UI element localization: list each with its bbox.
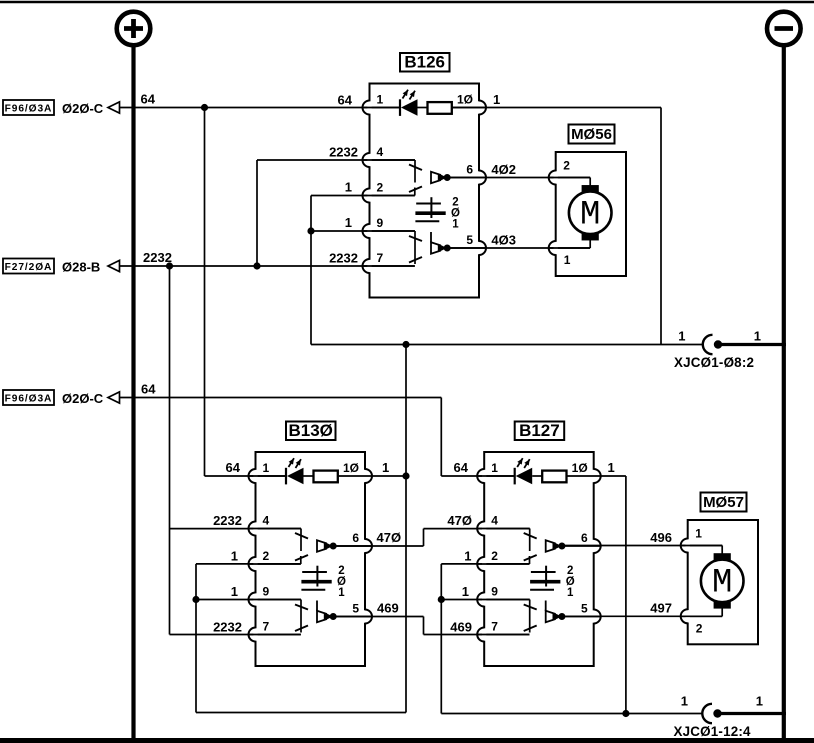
connector XJCØ1-Ø8:2 contact dot bbox=[714, 340, 722, 348]
motor MØ57 brush bottom bbox=[714, 601, 731, 608]
svg-text:1: 1 bbox=[678, 329, 685, 344]
wire B126 pin 9 bbox=[311, 230, 415, 232]
relay B13Ø switch S2 blade bbox=[295, 605, 308, 610]
relay B13Ø output arrow to pin 6 bbox=[317, 540, 326, 551]
svg-text:469: 469 bbox=[450, 620, 472, 635]
svg-text:F96/Ø3A: F96/Ø3A bbox=[5, 393, 53, 404]
svg-text:1: 1 bbox=[462, 584, 469, 599]
relay B126 LED D1 wire pin1 bbox=[363, 107, 401, 109]
motor MØ57 wire top pin bbox=[681, 545, 723, 547]
svg-text:2232: 2232 bbox=[329, 145, 358, 160]
svg-text:Ø2Ø-C: Ø2Ø-C bbox=[62, 101, 104, 116]
svg-text:1: 1 bbox=[493, 92, 500, 107]
svg-text:2232: 2232 bbox=[213, 513, 242, 528]
svg-text:1: 1 bbox=[345, 215, 352, 230]
wire 64 row 1 to B126 pin 1 bbox=[120, 107, 401, 109]
fuse reference box F96/03A row 1 bbox=[3, 100, 54, 115]
relay B13Ø capacitor C1 bbox=[316, 566, 318, 587]
relay B127 LED D1 light arrows bbox=[517, 458, 523, 467]
svg-text:7: 7 bbox=[377, 251, 384, 265]
svg-text:4: 4 bbox=[377, 145, 384, 159]
relay B126 outline box bbox=[370, 84, 480, 298]
svg-text:4Ø3: 4Ø3 bbox=[491, 233, 516, 248]
relay B13Ø switch S2 blade 2 bbox=[295, 626, 308, 632]
motor MØ57 label box MØ57 bbox=[701, 493, 747, 512]
svg-text:1: 1 bbox=[338, 587, 345, 599]
relay B126 LED D1 light arrows bbox=[403, 90, 409, 99]
svg-text:MØ57: MØ57 bbox=[703, 494, 744, 511]
motor MØ57 outline box bbox=[688, 520, 758, 644]
node junction B127 pin10 ground bbox=[622, 710, 629, 717]
relay B126 switch S1 pin2 stub bbox=[363, 195, 415, 197]
relay B127 switch S2 pin9 post bbox=[477, 599, 530, 601]
svg-text:64: 64 bbox=[141, 382, 156, 397]
motor MØ56 wire top pin bbox=[549, 177, 591, 179]
svg-text:Ø28-B: Ø28-B bbox=[62, 260, 100, 275]
relay B13Ø switch S1 pin2 stub bbox=[249, 563, 301, 565]
node junction ground return bbox=[402, 341, 409, 348]
wire B130 pin 9 bbox=[196, 599, 301, 601]
ground return wire to XJC01-08:2 bbox=[311, 344, 704, 346]
svg-text:5: 5 bbox=[466, 233, 473, 247]
relay B127 outline box bbox=[484, 452, 594, 666]
relay B127 switch S2 blade bbox=[524, 605, 537, 610]
svg-text:9: 9 bbox=[377, 216, 384, 230]
motor MØ57 wire bottom pin bbox=[721, 607, 723, 616]
motor MØ56 pin notches bbox=[554, 171, 558, 183]
thick wire XJC01-12:4 to negative bus bbox=[718, 712, 787, 715]
relay B13Ø output arrow to pin 5 bbox=[316, 601, 318, 612]
wire 2232 vertical to B130 pins 4 and 7 bbox=[169, 266, 171, 635]
relay B13Ø LED D1 light arrows bbox=[289, 458, 295, 467]
relay B127 pin notches bbox=[482, 470, 486, 482]
svg-text:5: 5 bbox=[352, 602, 359, 616]
relay B127 LED D1 wire pin1 bbox=[477, 475, 515, 477]
svg-text:9: 9 bbox=[263, 585, 270, 599]
relay B127 LED D1 cathode bar bbox=[514, 468, 516, 485]
relay B126 output arrow to pin 5 bbox=[430, 232, 432, 243]
svg-text:1: 1 bbox=[231, 549, 238, 564]
wire 64 row 3 to B127 pin 1 bbox=[120, 397, 442, 399]
motor MØ56 outline box bbox=[556, 152, 626, 276]
off-page arrow row 2 bbox=[108, 260, 120, 271]
wire 64 vertical to B130 pin 1 bbox=[204, 108, 206, 477]
svg-text:1: 1 bbox=[452, 219, 459, 231]
svg-text:64: 64 bbox=[338, 93, 353, 108]
node junction row2 to B130 pins 4 7 bbox=[166, 262, 173, 269]
svg-text:6: 6 bbox=[581, 531, 588, 545]
svg-text:6: 6 bbox=[466, 163, 473, 177]
motor MØ57 armature circle M bbox=[701, 560, 744, 603]
svg-text:1Ø: 1Ø bbox=[457, 93, 473, 107]
wire B126 pin 10 to ground node bbox=[452, 107, 661, 109]
motor MØ56 label box MØ56 bbox=[569, 125, 615, 144]
svg-text:B13Ø: B13Ø bbox=[288, 421, 332, 440]
svg-text:1: 1 bbox=[345, 180, 352, 195]
svg-text:B126: B126 bbox=[404, 53, 445, 72]
svg-text:1: 1 bbox=[231, 584, 238, 599]
motor MØ56 brush bottom bbox=[582, 233, 599, 240]
wire B126 pin 4 from node 2232 bbox=[256, 160, 258, 266]
svg-text:2232: 2232 bbox=[143, 250, 172, 265]
relay B13Ø resistor R1 bbox=[304, 475, 314, 477]
relay B126 capacitor C1 bbox=[430, 197, 432, 218]
node junction B130 pin 10 row bbox=[402, 472, 409, 479]
relay B13Ø LED D1 triangle bbox=[287, 468, 304, 484]
svg-text:2: 2 bbox=[696, 621, 703, 635]
svg-text:2: 2 bbox=[491, 549, 498, 563]
svg-text:2232: 2232 bbox=[213, 620, 242, 635]
node junction row2 to B126 pin 4 bbox=[253, 262, 260, 269]
svg-text:F96/Ø3A: F96/Ø3A bbox=[5, 103, 53, 114]
top border line bbox=[0, 1, 814, 3]
relay B127 switch S1 blade 2 bbox=[524, 555, 537, 561]
svg-text:F27/2ØA: F27/2ØA bbox=[5, 262, 53, 273]
relay B127 switch S2 blade 2 bbox=[524, 626, 537, 632]
svg-text:2: 2 bbox=[263, 549, 270, 563]
wire 402 B126 pin 6 to M056 pin 2 bbox=[448, 177, 591, 179]
relay B127 switch S1 blade bbox=[524, 533, 537, 539]
svg-text:4: 4 bbox=[263, 514, 270, 528]
relay B126 switch S1 blade bbox=[409, 165, 422, 171]
relay B126 resistor R1 bbox=[418, 107, 428, 109]
wire B127 pin 2 bbox=[441, 563, 529, 565]
fuse reference box F96/03A row 3 bbox=[3, 390, 54, 405]
svg-text:4Ø2: 4Ø2 bbox=[491, 162, 516, 177]
svg-text:496: 496 bbox=[650, 530, 672, 545]
motor MØ57 brush top bbox=[714, 553, 731, 560]
svg-text:1: 1 bbox=[491, 461, 498, 475]
svg-text:1: 1 bbox=[608, 460, 615, 475]
wire B127 pin 9 bbox=[441, 599, 529, 601]
relay B126 switch S2 pin7 wire bbox=[363, 265, 415, 267]
svg-text:7: 7 bbox=[263, 620, 270, 634]
relay B13Ø label box B13Ø bbox=[286, 422, 336, 441]
relay B127 switch S2 pin7 wire bbox=[477, 634, 529, 636]
svg-text:M: M bbox=[580, 196, 600, 234]
svg-text:1: 1 bbox=[681, 694, 688, 709]
relay B126 switch S2 blade 2 bbox=[409, 257, 422, 263]
connector XJCØ1-Ø8:2 arc bbox=[703, 335, 713, 354]
svg-text:1: 1 bbox=[263, 461, 270, 475]
svg-text:9: 9 bbox=[491, 585, 498, 599]
off-page arrow row 3 bbox=[108, 392, 120, 403]
wire B126 pin 2 bbox=[311, 195, 415, 197]
battery negative terminal symbol bbox=[767, 12, 801, 46]
thick wire XJC01-08:2 to negative bus bbox=[718, 343, 786, 346]
svg-text:7: 7 bbox=[491, 620, 498, 634]
svg-text:M: M bbox=[712, 564, 732, 602]
svg-text:MØ56: MØ56 bbox=[571, 126, 612, 143]
svg-text:6: 6 bbox=[352, 531, 359, 545]
wire B130 pin 2 bbox=[196, 563, 301, 565]
node junction B126 pin 9 bbox=[307, 227, 314, 234]
connector XJCØ1-12:4 arc bbox=[702, 704, 712, 723]
svg-text:1: 1 bbox=[377, 93, 384, 107]
relay B13Ø switch S1 blade 2 bbox=[295, 555, 308, 561]
node junction B130 pin 9 bbox=[192, 596, 199, 603]
wire 2232 row 2 to B126 pin 7 bbox=[120, 265, 415, 267]
node junction row1 to B130 pin 1 bbox=[201, 104, 208, 111]
relay B127 wire pin10 bbox=[567, 475, 601, 477]
relay B127 capacitor C1 bbox=[545, 566, 547, 587]
relay B126 switch S2 pin9 post bbox=[363, 230, 416, 232]
relay B126 LED D1 triangle bbox=[401, 99, 418, 115]
motor MØ57 pin notches bbox=[686, 539, 690, 551]
motor MØ56 armature circle M bbox=[569, 191, 612, 234]
svg-text:1Ø: 1Ø bbox=[572, 461, 588, 475]
fuse reference box F27/20A row 2 bbox=[3, 259, 54, 274]
wire B127 pin 10 down to ground row bbox=[601, 475, 626, 477]
relay B13Ø LED D1 cathode bar bbox=[285, 468, 287, 485]
wire 470 B130 pin 6 to B127 pin 4 bbox=[334, 545, 424, 547]
svg-text:47Ø: 47Ø bbox=[377, 530, 402, 545]
relay B13Ø wire pin10 bbox=[338, 475, 372, 477]
relay B126 switch S1 blade 2 bbox=[409, 187, 422, 193]
node junction B127 pin 9 bbox=[438, 596, 445, 603]
relay B13Ø LED D1 wire pin1 bbox=[249, 475, 287, 477]
svg-text:1: 1 bbox=[695, 527, 702, 541]
relay B126 output arrow to pin 6 bbox=[431, 172, 440, 183]
svg-text:1: 1 bbox=[756, 694, 763, 709]
relay B126 pin notches bbox=[367, 101, 371, 113]
wire B130 loop bottom to ground vertical bbox=[196, 712, 406, 714]
svg-text:Ø2Ø-C: Ø2Ø-C bbox=[62, 391, 104, 406]
svg-text:1Ø: 1Ø bbox=[343, 461, 359, 475]
svg-text:47Ø: 47Ø bbox=[447, 513, 472, 528]
svg-text:469: 469 bbox=[377, 601, 399, 616]
wire 403 B126 pin 5 to M056 pin 1 bbox=[448, 247, 591, 249]
svg-text:64: 64 bbox=[454, 460, 469, 475]
svg-text:1: 1 bbox=[564, 253, 571, 267]
relay B13Ø switch S1 blade bbox=[295, 533, 308, 539]
negative ground bus wire bbox=[782, 46, 786, 739]
bottom ground bar bbox=[0, 738, 814, 743]
connector XJCØ1-12:4 contact dot bbox=[713, 709, 721, 717]
svg-text:64: 64 bbox=[226, 460, 241, 475]
off-page arrow row 1 bbox=[108, 102, 120, 113]
relay B13Ø switch S2 pin9 post bbox=[249, 599, 302, 601]
relay B13Ø switch S1 pin4 post bbox=[249, 528, 302, 530]
battery positive terminal symbol bbox=[117, 12, 151, 46]
svg-text:5: 5 bbox=[581, 602, 588, 616]
svg-text:64: 64 bbox=[141, 92, 156, 107]
relay B126 wire pin10 bbox=[452, 107, 486, 109]
relay B126 switch S2 blade bbox=[409, 236, 422, 241]
motor MØ56 brush top bbox=[582, 185, 599, 192]
positive supply bus wire bbox=[131, 46, 135, 739]
relay B127 switch S1 pin4 post bbox=[477, 528, 530, 530]
svg-text:XJCØ1-Ø8:2: XJCØ1-Ø8:2 bbox=[674, 355, 754, 370]
svg-text:1: 1 bbox=[567, 587, 574, 599]
motor MØ56 wire bottom pin bbox=[589, 239, 591, 248]
relay B13Ø outline box bbox=[256, 452, 366, 666]
svg-text:1: 1 bbox=[754, 329, 761, 344]
relay B13Ø pin notches bbox=[253, 470, 257, 482]
relay B127 switch S1 pin2 stub bbox=[477, 563, 529, 565]
relay B126 label box B126 bbox=[400, 53, 450, 72]
relay B126 LED D1 cathode bar bbox=[399, 99, 401, 116]
svg-text:XJCØ1-12:4: XJCØ1-12:4 bbox=[674, 724, 752, 739]
svg-text:2: 2 bbox=[563, 159, 570, 173]
relay B13Ø switch S2 pin7 wire bbox=[249, 634, 301, 636]
relay B127 resistor R1 bbox=[532, 475, 542, 477]
svg-text:B127: B127 bbox=[519, 421, 560, 440]
relay B126 switch S1 pin4 post bbox=[363, 159, 416, 161]
svg-text:2232: 2232 bbox=[329, 251, 358, 266]
svg-text:1: 1 bbox=[464, 549, 471, 564]
wire 469 B130 pin 5 to B127 pin 7 bbox=[334, 616, 424, 618]
wire 496 B127 pin 6 to M057 pin 1 bbox=[562, 545, 722, 547]
wire B130 pin 10 to node bbox=[373, 475, 407, 477]
svg-text:497: 497 bbox=[650, 601, 672, 616]
ground return wire to XJC01-12:4 bbox=[441, 713, 703, 715]
wire row3 64 to B127 pin 1 bbox=[441, 475, 515, 477]
relay B127 output arrow to pin 6 bbox=[546, 540, 555, 551]
relay B127 label box B127 bbox=[515, 422, 565, 441]
wire 497 B127 pin 5 to M057 pin 2 bbox=[562, 615, 722, 617]
svg-text:2: 2 bbox=[377, 181, 384, 195]
relay B127 output arrow to pin 5 bbox=[545, 601, 547, 612]
svg-text:1: 1 bbox=[382, 460, 389, 475]
relay B127 LED D1 triangle bbox=[516, 468, 533, 484]
svg-text:4: 4 bbox=[491, 514, 498, 528]
